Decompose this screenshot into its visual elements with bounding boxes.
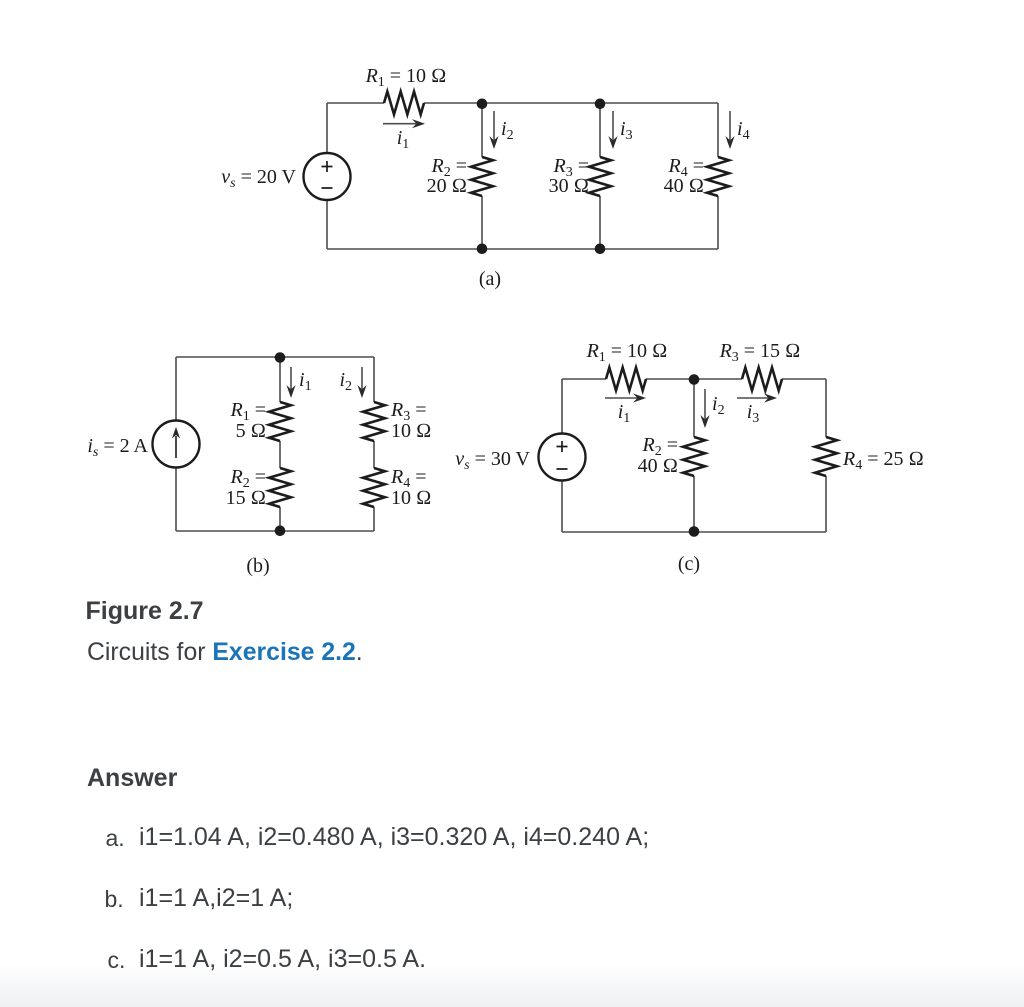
current arrow i1 circuit a xyxy=(383,123,416,125)
svg-text:is = 2 A: is = 2 A xyxy=(87,435,148,460)
svg-text:30 Ω: 30 Ω xyxy=(549,175,589,197)
current arrow i2 circuit a xyxy=(493,111,495,140)
figure caption text xyxy=(87,641,363,666)
node dot bottom of R2 branch xyxy=(477,244,488,255)
node dot top of R3 branch xyxy=(595,99,606,110)
answer heading xyxy=(87,766,177,791)
wire: circuit a R3 branch stubs xyxy=(599,103,601,249)
svg-text:i1: i1 xyxy=(397,127,410,152)
resistor R1 circuit c xyxy=(606,368,646,391)
current arrow i1 circuit b xyxy=(290,367,292,389)
wire: circuit c top segments xyxy=(562,378,826,380)
svg-text:(a): (a) xyxy=(479,268,501,290)
wire: circuit b left stubs xyxy=(175,357,177,531)
wire: circuit c middle branch stubs xyxy=(693,379,695,532)
svg-text:(b): (b) xyxy=(246,555,269,577)
svg-text:i2: i2 xyxy=(339,369,352,394)
wire: circuit c bottom xyxy=(562,531,826,533)
resistor R2 circuit a xyxy=(471,157,493,196)
wire: circuit a left top stub xyxy=(326,103,328,153)
current arrow i3 circuit c xyxy=(737,397,769,399)
answer item a xyxy=(106,827,125,850)
svg-text:R1 = 10 Ω: R1 = 10 Ω xyxy=(365,65,447,90)
resistor R3 circuit b xyxy=(363,402,385,441)
figure caption title xyxy=(86,599,204,624)
wire: circuit a R2 branch stubs xyxy=(481,103,483,249)
voltage source vs=30V circuit c xyxy=(539,434,586,481)
resistor R4 circuit a xyxy=(707,157,729,196)
current arrow i1 circuit c xyxy=(605,397,638,399)
node dot top circuit b xyxy=(275,352,286,363)
svg-text:20 Ω: 20 Ω xyxy=(427,175,467,197)
resistor R3 circuit a xyxy=(589,157,611,196)
wire: circuit a left bottom stub xyxy=(326,200,328,249)
resistor R2 circuit b xyxy=(269,468,291,507)
answer item c xyxy=(108,949,126,972)
wire: circuit c right stubs xyxy=(825,379,827,532)
svg-text:i4: i4 xyxy=(737,118,750,143)
wire: circuit b middle branch stubs xyxy=(279,357,281,531)
resistor R1 circuit b xyxy=(269,402,291,441)
svg-text:15 Ω: 15 Ω xyxy=(226,487,266,509)
current arrow i2 circuit c xyxy=(704,389,706,419)
svg-text:i1: i1 xyxy=(618,401,631,426)
wire: circuit b right branch stubs xyxy=(373,357,375,531)
svg-text:vs = 30 V: vs = 30 V xyxy=(455,448,530,473)
current arrow i3 circuit a xyxy=(612,111,614,140)
answer item b xyxy=(105,888,124,911)
wire: circuit c left stubs xyxy=(561,379,563,532)
current arrow i4 circuit a xyxy=(729,111,731,140)
svg-text:i3: i3 xyxy=(747,401,760,426)
node dot top of R2 branch xyxy=(477,99,488,110)
svg-text:40 Ω: 40 Ω xyxy=(664,175,704,197)
node dot bottom circuit b xyxy=(275,526,286,537)
resistor R3 circuit c xyxy=(742,368,782,391)
svg-text:40 Ω: 40 Ω xyxy=(638,455,678,477)
svg-text:10 Ω: 10 Ω xyxy=(391,420,431,442)
wire: circuit b bottom xyxy=(176,530,374,532)
wire: circuit a top segment right of R1 xyxy=(424,102,718,104)
svg-text:R4 = 25 Ω: R4 = 25 Ω xyxy=(842,448,924,473)
voltage source vs=20V circuit a xyxy=(304,153,351,200)
wire: circuit b top xyxy=(176,356,374,358)
svg-text:i1: i1 xyxy=(299,369,312,394)
wire: circuit a bottom wire xyxy=(327,248,718,250)
resistor R4 circuit b xyxy=(363,468,385,507)
wire: circuit a right branch bottom stub xyxy=(717,196,719,249)
node dot bottom of R3 branch xyxy=(595,244,606,255)
svg-text:(c): (c) xyxy=(678,553,700,575)
bottom gradient bar xyxy=(0,963,1024,1007)
resistor R2 circuit c xyxy=(683,437,705,476)
current source is=2A circuit b xyxy=(153,421,200,468)
node dot top circuit c xyxy=(689,374,700,385)
wire: circuit a right branch top stub xyxy=(717,103,719,157)
svg-text:R3 = 15 Ω: R3 = 15 Ω xyxy=(719,340,801,365)
wire: circuit a top-left segment xyxy=(327,102,384,104)
svg-text:R1 = 10 Ω: R1 = 10 Ω xyxy=(586,340,668,365)
svg-text:vs = 20 V: vs = 20 V xyxy=(221,166,296,191)
resistor R4 circuit c xyxy=(815,437,837,476)
svg-text:i2: i2 xyxy=(712,393,725,418)
resistor R1 circuit a xyxy=(384,92,424,115)
svg-text:i3: i3 xyxy=(620,118,633,143)
svg-text:5 Ω: 5 Ω xyxy=(236,420,266,442)
svg-text:10 Ω: 10 Ω xyxy=(391,487,431,509)
svg-text:i2: i2 xyxy=(501,118,514,143)
node dot bottom circuit c xyxy=(689,526,700,537)
